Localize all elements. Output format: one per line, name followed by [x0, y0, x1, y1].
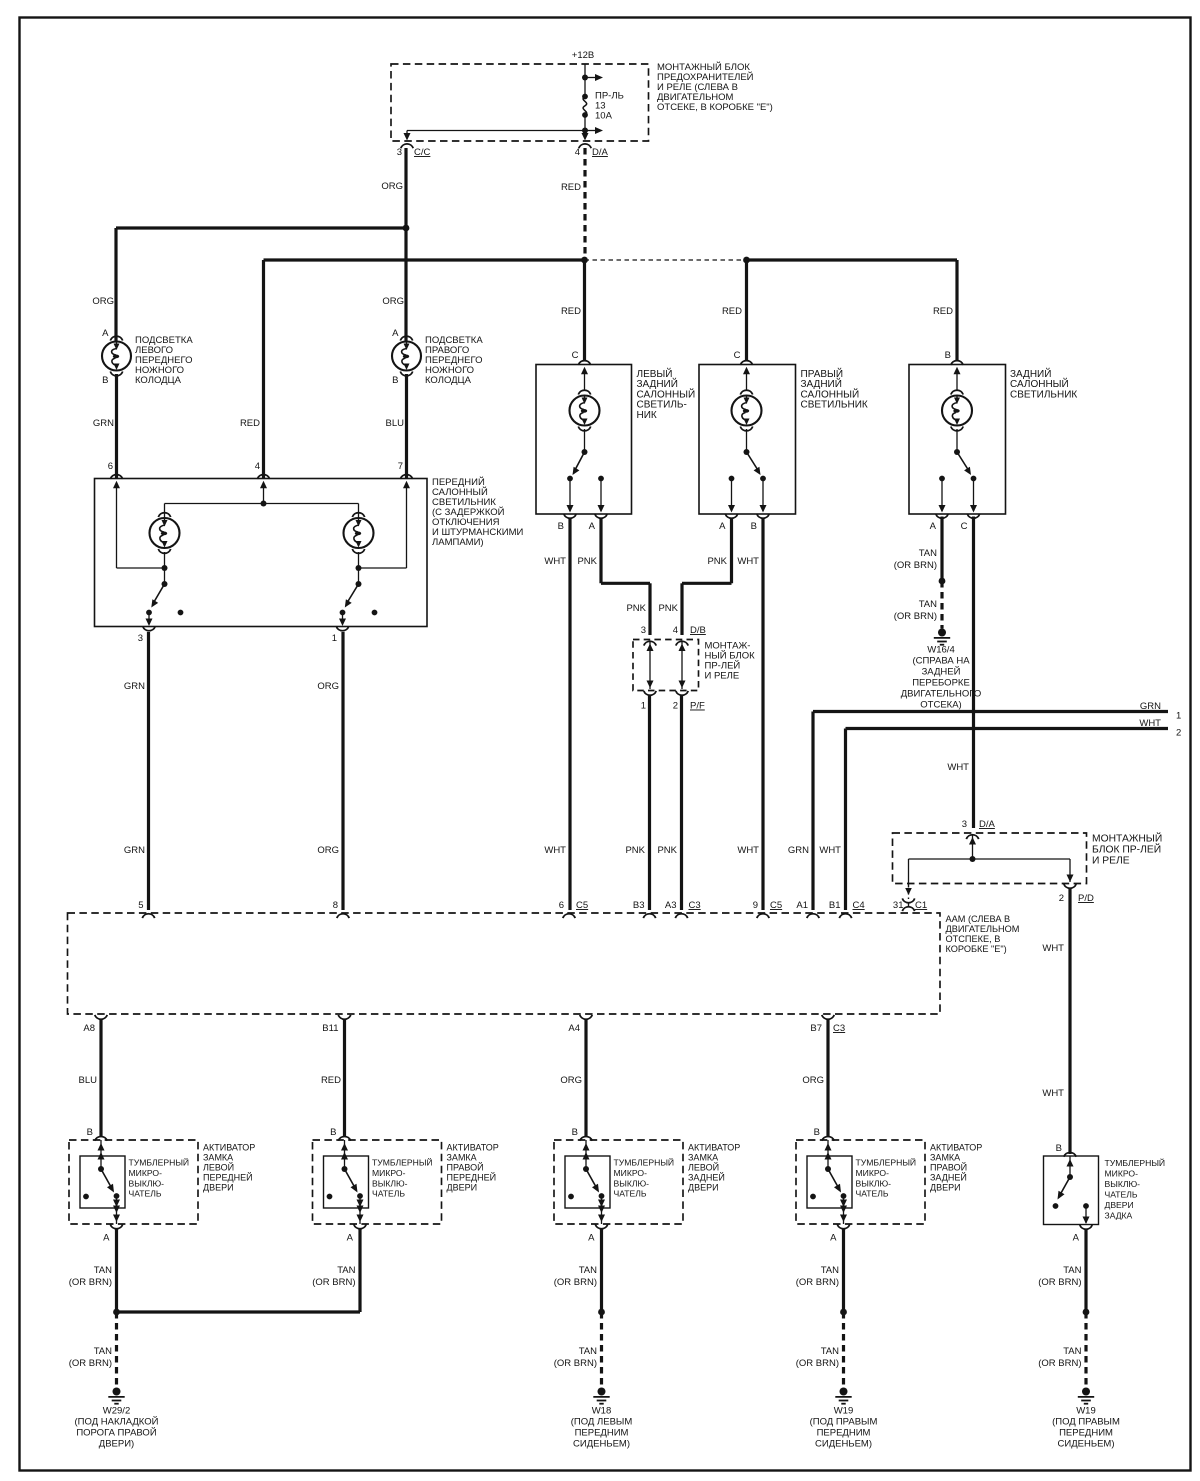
connector C1 between right relay box and AAM (pin 31) — [908, 884, 910, 900]
svg-text:RED: RED — [240, 418, 260, 429]
svg-text:ПРАВЫЙ: ПРАВЫЙ — [801, 367, 844, 380]
pin 4 / D/B of middle relay box — [676, 641, 688, 645]
fuse/relay box (МОНТАЖНЫЙ БЛОК ПРЕДОХРАНИТЕЛЕЙ И РЕЛЕ) dashed outline — [391, 64, 649, 141]
svg-text:ЛАМПАМИ): ЛАМПАМИ) — [432, 537, 484, 548]
junction TAN — [840, 1309, 847, 1316]
wire RED down to front interior lamp pin 4 — [262, 260, 265, 478]
switch contact dot (common) — [114, 1193, 120, 1199]
svg-text:ТУМБЛЕРНЫЙ: ТУМБЛЕРНЫЙ — [1105, 1157, 1166, 1168]
svg-text:ПЕРЕДНЕЙ: ПЕРЕДНЕЙ — [203, 1172, 253, 1183]
crossing to outer dashed edge — [359, 1208, 361, 1224]
wire RED dashed from pin 4 down — [583, 148, 586, 260]
lamp: footwell illumination bulb (ПРАВОГО) — [392, 328, 421, 386]
wire ORG horizontal bus to left footwell lamp — [116, 226, 406, 229]
svg-text:B: B — [945, 350, 951, 361]
right rear door lock actuator dashed box — [796, 1140, 925, 1224]
switch pivot (tailgate) — [1067, 1174, 1073, 1180]
svg-text:ВЫКЛЮ-: ВЫКЛЮ- — [1105, 1179, 1141, 1189]
switch contact dot common (tailgate) — [1083, 1203, 1089, 1209]
svg-text:C1: C1 — [915, 900, 927, 911]
wire PNK right rear lamp A to relay box pin 4 — [730, 519, 733, 583]
switch contact dot (open) — [568, 1194, 574, 1200]
svg-text:СИДЕНЬЕМ): СИДЕНЬЕМ) — [1058, 1439, 1115, 1450]
wire RED down to right rear lamp — [745, 260, 748, 361]
junction ORG bus — [403, 225, 410, 232]
AAM control unit box dashed outline — [68, 913, 941, 1014]
switch contact dot (common) — [357, 1193, 363, 1199]
wire +12V feed inside fuse box — [584, 64, 586, 97]
svg-text:A: A — [102, 328, 109, 339]
wire below fuse — [584, 115, 586, 138]
svg-text:RED: RED — [321, 1075, 341, 1086]
switch contact dot (open) — [327, 1194, 333, 1200]
svg-text:W29/2: W29/2 — [103, 1406, 130, 1417]
svg-text:7: 7 — [398, 461, 403, 472]
junction RED bus right — [743, 257, 750, 264]
svg-text:A4: A4 — [568, 1023, 580, 1034]
svg-text:ВЫКЛЮ-: ВЫКЛЮ- — [129, 1179, 165, 1189]
svg-text:ЧАТЕЛЬ: ЧАТЕЛЬ — [372, 1189, 405, 1199]
svg-text:АКТИВАТОР: АКТИВАТОР — [688, 1143, 740, 1153]
svg-text:(СПРАВА НА: (СПРАВА НА — [912, 656, 970, 667]
svg-text:B7: B7 — [810, 1023, 822, 1034]
svg-text:ЛЕВОЙ: ЛЕВОЙ — [203, 1162, 234, 1173]
svg-text:(OR BRN): (OR BRN) — [69, 1358, 112, 1369]
svg-text:КОЛОДЦА: КОЛОДЦА — [425, 375, 472, 386]
svg-text:B: B — [1056, 1143, 1062, 1154]
AAM top pin 9 C5 — [757, 914, 769, 918]
switch blade (tailgate) — [1059, 1177, 1071, 1198]
pin 1 of middle relay box — [644, 691, 656, 695]
internal path pin3-pin1 — [649, 641, 651, 689]
AAM bottom pin B11 — [338, 1015, 350, 1019]
svg-text:P/F: P/F — [690, 701, 705, 712]
svg-text:ВЫКЛЮ-: ВЫКЛЮ- — [614, 1179, 650, 1189]
svg-text:И РЕЛЕ: И РЕЛЕ — [705, 671, 740, 682]
svg-text:ВЫКЛЮ-: ВЫКЛЮ- — [372, 1179, 408, 1189]
switch pivot — [342, 1166, 348, 1172]
svg-text:КОЛОДЦА: КОЛОДЦА — [135, 375, 182, 386]
svg-text:9: 9 — [753, 900, 758, 911]
svg-text:4: 4 — [673, 625, 678, 636]
svg-text:C: C — [734, 350, 741, 361]
pin 2 P/D of right relay box — [1064, 884, 1076, 888]
internal return path left — [116, 487, 118, 568]
svg-text:WHT: WHT — [819, 845, 841, 856]
svg-text:B: B — [87, 1127, 93, 1138]
wire WHT AAM pin B1 to right edge (2) — [844, 729, 847, 911]
svg-text:ДВЕРИ: ДВЕРИ — [1105, 1200, 1134, 1210]
svg-text:3: 3 — [641, 625, 646, 636]
relay box (МОНТАЖ-НЫЙ БЛОК ПР-ЛЕЙ И РЕЛЕ) dashed outline — [633, 640, 699, 691]
svg-text:TAN: TAN — [1063, 1346, 1081, 1357]
AAM bottom pin A4 — [580, 1015, 592, 1019]
svg-text:ПЕРЕДНЕЙ: ПЕРЕДНЕЙ — [447, 1172, 497, 1183]
AAM top pin B1 C4 — [839, 914, 851, 918]
svg-text:31: 31 — [893, 900, 904, 911]
AAM bottom pin A8 — [95, 1015, 107, 1019]
AAM top pin A3 C3 — [675, 914, 687, 918]
svg-text:ЗАМКА: ЗАМКА — [688, 1153, 718, 1163]
svg-text:ЗАДНИЙ: ЗАДНИЙ — [637, 377, 678, 390]
svg-text:АКТИВАТОР: АКТИВАТОР — [203, 1143, 255, 1153]
svg-text:ПОРОГА ПРАВОЙ: ПОРОГА ПРАВОЙ — [76, 1427, 156, 1439]
svg-text:МИКРО-: МИКРО- — [614, 1168, 648, 1178]
svg-text:A: A — [1073, 1233, 1080, 1244]
svg-text:B: B — [392, 375, 398, 386]
svg-text:САЛОННЫЙ: САЛОННЫЙ — [1010, 377, 1069, 390]
svg-text:C: C — [961, 521, 968, 532]
wire RED down to left rear lamp — [583, 260, 586, 361]
AAM top pin 6 C5 — [563, 914, 575, 918]
wire TAN below left rear door lock actuator — [600, 1229, 603, 1312]
wire TAN below tailgate switch — [1084, 1230, 1087, 1313]
svg-text:A3: A3 — [665, 900, 677, 911]
svg-text:TAN: TAN — [821, 1265, 839, 1276]
svg-text:TAN: TAN — [94, 1346, 112, 1357]
pin A of left front door lock actuator — [110, 1224, 122, 1228]
switch pivot — [825, 1166, 831, 1172]
svg-text:TAN: TAN — [1063, 1265, 1081, 1276]
svg-text:(OR BRN): (OR BRN) — [894, 611, 937, 622]
svg-text:(OR BRN): (OR BRN) — [312, 1277, 355, 1288]
svg-text:ДВЕРИ: ДВЕРИ — [688, 1183, 719, 1193]
svg-text:A: A — [347, 1233, 354, 1244]
svg-text:RED: RED — [933, 306, 953, 317]
svg-text:3: 3 — [397, 147, 402, 158]
svg-text:GRN: GRN — [93, 418, 114, 429]
lamp: footwell illumination bulb (ЛЕВОГО) — [102, 328, 131, 386]
pin A of right front door lock actuator — [354, 1224, 366, 1228]
wire PNK relay box pin 1 to AAM pin B3 — [648, 696, 651, 910]
bulb of rear interior lamp (ЗАДНИЙ САЛОННЫЙ СВЕТИЛЬНИК) — [956, 373, 958, 391]
rear interior lamp (ЗАДНИЙ САЛОННЫЙ СВЕТИЛЬНИК) box — [909, 365, 1006, 515]
wire WHT right relay box pin 2 to tailgate switch — [1068, 889, 1071, 1154]
internal path of right relay box — [972, 835, 974, 860]
svg-text:GRN: GRN — [788, 845, 809, 856]
svg-text:ДВИГАТЕЛЬНОМ: ДВИГАТЕЛЬНОМ — [946, 924, 1020, 934]
wire ORG from AAM down to door actuator — [826, 1020, 829, 1136]
svg-text:A1: A1 — [796, 900, 808, 911]
svg-text:ЗАДКА: ЗАДКА — [1105, 1211, 1133, 1221]
svg-text:TAN: TAN — [579, 1265, 597, 1276]
svg-text:(ПОД ПРАВЫМ: (ПОД ПРАВЫМ — [810, 1417, 878, 1428]
wire WHT left rear lamp B to AAM pin 6 — [568, 519, 571, 910]
svg-text:A: A — [589, 521, 596, 532]
toggle micro-switch box — [807, 1156, 852, 1208]
front interior lamp unit box (ПЕРЕДНИЙ САЛОННЫЙ СВЕТИЛЬНИК) — [95, 479, 428, 627]
svg-text:PNK: PNK — [626, 603, 646, 614]
svg-text:2: 2 — [673, 701, 678, 712]
svg-text:(OR BRN): (OR BRN) — [796, 1358, 839, 1369]
svg-text:C3: C3 — [689, 900, 701, 911]
wire GRN front lamp pin 3 to AAM pin 5 — [147, 632, 150, 910]
svg-text:RED: RED — [722, 306, 742, 317]
switch pivot — [98, 1166, 104, 1172]
svg-text:D/A: D/A — [979, 819, 996, 830]
svg-text:5: 5 — [138, 900, 143, 911]
junction TAN — [113, 1309, 120, 1316]
pin A of right rear door lock actuator — [837, 1224, 849, 1228]
svg-text:ПРАВОЙ: ПРАВОЙ — [447, 1162, 484, 1173]
svg-text:(OR BRN): (OR BRN) — [894, 560, 937, 571]
junction dot and spur arrow (lower) — [582, 128, 588, 134]
pin A of left rear interior lamp (ЛЕВЫЙ ЗАДНИЙ САЛОННЫЙ СВЕТИЛЬНИК) — [595, 514, 607, 518]
svg-text:ЗАДНИЙ: ЗАДНИЙ — [1010, 367, 1051, 380]
svg-text:TAN: TAN — [919, 599, 937, 610]
ground W19 — [840, 1388, 848, 1396]
svg-text:ЗАДНЕЙ: ЗАДНЕЙ — [930, 1172, 967, 1183]
svg-text:МОНТАЖНЫЙ: МОНТАЖНЫЙ — [1092, 832, 1162, 845]
svg-text:ДВЕРИ): ДВЕРИ) — [99, 1439, 134, 1450]
switch contact dot open (tailgate) — [1053, 1203, 1059, 1209]
ground W19 tailgate — [1082, 1388, 1090, 1396]
wire ORG down to right footwell lamp — [404, 228, 407, 341]
svg-text:АКТИВАТОР: АКТИВАТОР — [930, 1143, 982, 1153]
AAM top pin 8 — [337, 914, 349, 918]
pin B of right front door lock actuator — [338, 1136, 350, 1140]
pin B of tailgate switch — [1064, 1152, 1076, 1156]
svg-text:C5: C5 — [576, 900, 588, 911]
svg-text:GRN: GRN — [124, 845, 145, 856]
pin 7 of front lamp — [400, 475, 412, 479]
switch contact dot (open) — [810, 1194, 816, 1200]
svg-text:W18: W18 — [592, 1406, 612, 1417]
pin A of rear interior lamp (ЗАДНИЙ САЛОННЫЙ СВЕТИЛЬНИК) — [936, 514, 948, 518]
svg-text:B: B — [330, 1127, 336, 1138]
svg-text:WHT: WHT — [1042, 1088, 1064, 1099]
left map lamp bulb — [158, 513, 170, 517]
switch blade — [345, 1169, 357, 1191]
pin 2 / P/F of middle relay box — [676, 691, 688, 695]
svg-text:GRN: GRN — [124, 681, 145, 692]
svg-text:ЧАТЕЛЬ: ЧАТЕЛЬ — [614, 1189, 647, 1199]
svg-text:+12В: +12В — [572, 50, 594, 61]
wire ORG from AAM down to door actuator — [584, 1020, 587, 1136]
pin C of left rear interior lamp (ЛЕВЫЙ ЗАДНИЙ САЛОННЫЙ СВЕТИЛЬНИК) — [578, 361, 590, 365]
svg-text:WHT: WHT — [947, 762, 969, 773]
pin B of left front door lock actuator — [95, 1136, 107, 1140]
svg-text:PNK: PNK — [625, 845, 645, 856]
svg-text:ЗАДНЕЙ: ЗАДНЕЙ — [688, 1172, 725, 1183]
internal bus to pin 3 — [407, 130, 585, 132]
wire TAN dashed to ground — [842, 1312, 845, 1388]
wire RED horizontal bus — [264, 258, 585, 261]
svg-text:AAM (СЛЕВА В: AAM (СЛЕВА В — [946, 914, 1011, 924]
left rear door lock actuator dashed box — [554, 1140, 683, 1224]
svg-text:A: A — [830, 1233, 837, 1244]
svg-text:И РЕЛЕ: И РЕЛЕ — [1092, 856, 1130, 867]
svg-text:RED: RED — [561, 182, 581, 193]
wire PNK relay box pin 2 to AAM pin A3 — [680, 696, 683, 910]
svg-text:D/B: D/B — [690, 625, 706, 636]
crossing to outer dashed edge — [601, 1208, 603, 1224]
wire TAN bus actuator1-actuator2 — [117, 1310, 361, 1313]
svg-text:B: B — [751, 521, 757, 532]
internal return path right — [406, 487, 408, 568]
svg-text:ОТСПЕКЕ, В: ОТСПЕКЕ, В — [946, 934, 1001, 944]
left rear interior lamp (ЛЕВЫЙ ЗАДНИЙ САЛОННЫЙ СВЕТИЛЬНИК) box — [536, 365, 632, 515]
wire TAN below right rear door lock actuator — [842, 1229, 845, 1312]
svg-text:WHT: WHT — [544, 845, 566, 856]
switch pivot — [583, 1166, 589, 1172]
svg-text:ПРАВОЙ: ПРАВОЙ — [930, 1162, 967, 1173]
svg-text:WHT: WHT — [1042, 943, 1064, 954]
svg-text:(OR BRN): (OR BRN) — [1038, 1358, 1081, 1369]
svg-text:PNK: PNK — [658, 603, 678, 614]
wire GRN from left footwell lamp to front lamp pin 6 — [115, 374, 118, 478]
svg-text:ДВИГАТЕЛЬНОГО: ДВИГАТЕЛЬНОГО — [901, 689, 982, 700]
svg-text:САЛОННЫЙ: САЛОННЫЙ — [637, 387, 696, 400]
svg-text:A: A — [392, 328, 399, 339]
svg-text:КОРОБКЕ "Е"): КОРОБКЕ "Е") — [946, 944, 1007, 954]
pin 4 of front lamp — [257, 475, 269, 479]
svg-text:ЧАТЕЛЬ: ЧАТЕЛЬ — [1105, 1190, 1138, 1200]
wire TAN rear lamp A to ground W16/4 — [940, 517, 943, 582]
AAM top pin 5 — [142, 914, 154, 918]
svg-text:D/A: D/A — [592, 147, 609, 158]
svg-text:W16/4: W16/4 — [927, 645, 954, 656]
svg-text:BLU: BLU — [79, 1075, 98, 1086]
svg-text:МИКРО-: МИКРО- — [372, 1168, 406, 1178]
svg-text:PNK: PNK — [707, 556, 727, 567]
svg-text:ЧАТЕЛЬ: ЧАТЕЛЬ — [129, 1189, 162, 1199]
svg-text:ДВЕРИ: ДВЕРИ — [203, 1183, 234, 1193]
svg-text:ЧАТЕЛЬ: ЧАТЕЛЬ — [856, 1189, 889, 1199]
svg-text:B: B — [572, 1127, 578, 1138]
svg-text:ТУМБЛЕРНЫЙ: ТУМБЛЕРНЫЙ — [372, 1157, 433, 1168]
svg-text:ДВЕРИ: ДВЕРИ — [930, 1183, 961, 1193]
pin B of left rear interior lamp (ЛЕВЫЙ ЗАДНИЙ САЛОННЫЙ СВЕТИЛЬНИК) — [564, 514, 576, 518]
svg-text:TAN: TAN — [579, 1346, 597, 1357]
svg-text:НИК: НИК — [637, 410, 657, 421]
right map lamp bulb — [352, 513, 364, 517]
switch blade — [101, 1169, 113, 1191]
wire BLU from right footwell lamp to front lamp pin 7 — [405, 374, 408, 478]
svg-text:ОТСЕКЕ, В КОРОБКЕ "Е"): ОТСЕКЕ, В КОРОБКЕ "Е") — [657, 102, 773, 113]
wire RED from AAM down to door actuator — [343, 1020, 346, 1136]
junction dot and spur arrow (upper) — [582, 75, 588, 81]
svg-text:B: B — [558, 521, 564, 532]
bulb of left rear interior lamp (ЛЕВЫЙ ЗАДНИЙ САЛОННЫЙ СВЕТИЛЬНИК) — [584, 373, 586, 391]
svg-text:ТУМБЛЕРНЫЙ: ТУМБЛЕРНЫЙ — [856, 1157, 917, 1168]
svg-text:A: A — [930, 521, 937, 532]
switch contact dot (common) — [841, 1193, 847, 1199]
AAM bottom pin B7 C3 — [822, 1015, 834, 1019]
wire TAN below right front door lock actuator — [358, 1229, 361, 1312]
junction TAN — [939, 578, 946, 585]
wire ORG front lamp pin 1 to AAM pin 8 — [341, 632, 344, 910]
svg-text:ORG: ORG — [802, 1075, 824, 1086]
svg-text:ЗАМКА: ЗАМКА — [930, 1153, 960, 1163]
svg-text:A: A — [103, 1233, 110, 1244]
wire BLU from AAM down to door actuator — [99, 1020, 102, 1136]
AAM top pin B3 — [643, 914, 655, 918]
ground W29/2 — [113, 1388, 121, 1396]
svg-text:ORG: ORG — [317, 681, 339, 692]
wire RED down to rear interior lamp — [955, 260, 958, 361]
svg-text:(ПОД ЛЕВЫМ: (ПОД ЛЕВЫМ — [571, 1417, 633, 1428]
bulb of right rear interior lamp (ПРАВЫЙ ЗАДНИЙ САЛОННЫЙ СВЕТИЛЬНИК) — [746, 373, 748, 391]
wire WHT right rear lamp B to AAM pin 9 — [761, 519, 764, 910]
right rear interior lamp (ПРАВЫЙ ЗАДНИЙ САЛОННЫЙ СВЕТИЛЬНИК) box — [699, 365, 796, 515]
crossing to outer dashed edge — [116, 1208, 118, 1224]
svg-text:6: 6 — [559, 900, 564, 911]
svg-text:B11: B11 — [322, 1023, 338, 1034]
svg-text:B: B — [102, 375, 108, 386]
AAM top pin A1 — [807, 914, 819, 918]
svg-text:RED: RED — [561, 306, 581, 317]
svg-text:2: 2 — [1059, 893, 1064, 904]
wire TAN below left front door lock actuator — [115, 1229, 118, 1312]
pin A of right rear interior lamp (ПРАВЫЙ ЗАДНИЙ САЛОННЫЙ СВЕТИЛЬНИК) — [725, 514, 737, 518]
svg-text:МИКРО-: МИКРО- — [1105, 1169, 1139, 1179]
svg-text:СИДЕНЬЕМ): СИДЕНЬЕМ) — [573, 1439, 630, 1450]
switch contact dot (open) — [83, 1194, 89, 1200]
svg-text:TAN: TAN — [94, 1265, 112, 1276]
svg-text:ORG: ORG — [92, 296, 114, 307]
switch contact dot (common) — [599, 1193, 605, 1199]
svg-text:10А: 10А — [595, 111, 613, 122]
svg-text:TAN: TAN — [919, 548, 937, 559]
pin 3 C/C of fuse box — [401, 144, 413, 148]
svg-text:WHT: WHT — [544, 556, 566, 567]
svg-text:W19: W19 — [1076, 1406, 1096, 1417]
wire PNK left rear lamp A to relay box pin 3 — [599, 519, 602, 583]
pin B of left rear door lock actuator — [580, 1136, 592, 1140]
svg-text:ПЕРЕДНИМ: ПЕРЕДНИМ — [575, 1428, 629, 1439]
wire TAN dashed to ground — [115, 1312, 118, 1388]
pin 4 D/A of fuse box — [579, 144, 591, 148]
pin 6 of front lamp — [110, 475, 122, 479]
svg-text:СВЕТИЛЬНИК: СВЕТИЛЬНИК — [801, 400, 868, 411]
svg-text:ЗАДНЕЙ: ЗАДНЕЙ — [922, 666, 961, 678]
svg-text:C4: C4 — [853, 900, 865, 911]
svg-text:(ПОД НАКЛАДКОЙ: (ПОД НАКЛАДКОЙ — [75, 1416, 159, 1428]
left front door lock actuator dashed box — [69, 1140, 198, 1224]
junction TAN — [598, 1309, 605, 1316]
svg-text:B: B — [814, 1127, 820, 1138]
pin C of rear interior lamp (ЗАДНИЙ САЛОННЫЙ СВЕТИЛЬНИК) — [967, 514, 979, 518]
junction TAN — [1083, 1309, 1090, 1316]
svg-text:C: C — [572, 350, 579, 361]
pin 1 of front lamp — [336, 626, 348, 630]
svg-text:3: 3 — [138, 633, 143, 644]
svg-text:ORG: ORG — [317, 845, 339, 856]
svg-text:1: 1 — [332, 633, 337, 644]
toggle micro-switch box — [80, 1156, 125, 1208]
svg-text:ORG: ORG — [382, 296, 404, 307]
svg-text:ПЕРЕДНИМ: ПЕРЕДНИМ — [817, 1428, 871, 1439]
svg-text:ДВЕРИ: ДВЕРИ — [447, 1183, 478, 1193]
svg-text:САЛОННЫЙ: САЛОННЫЙ — [801, 387, 860, 400]
svg-text:B1: B1 — [829, 900, 841, 911]
door switch of right rear interior lamp (ПРАВЫЙ ЗАДНИЙ САЛОННЫЙ СВЕТИЛЬНИК) — [728, 449, 767, 513]
svg-text:C5: C5 — [770, 900, 782, 911]
svg-text:3: 3 — [962, 819, 967, 830]
wire WHT rear lamp C down to relay box pin 3 D/A — [972, 517, 975, 829]
svg-text:ВЫКЛЮ-: ВЫКЛЮ- — [856, 1179, 892, 1189]
wire GRN AAM pin A1 to right edge (1) — [811, 712, 814, 911]
wire TAN dashed to ground — [1084, 1312, 1087, 1388]
svg-text:ПЕРЕБОРКЕ: ПЕРЕБОРКЕ — [912, 678, 970, 689]
svg-text:ЗАМКА: ЗАМКА — [203, 1153, 233, 1163]
svg-text:ORG: ORG — [560, 1075, 582, 1086]
svg-text:A8: A8 — [83, 1023, 95, 1034]
switch blade — [828, 1169, 840, 1191]
pin A of tailgate switch — [1080, 1225, 1092, 1229]
svg-text:WHT: WHT — [1139, 718, 1161, 729]
